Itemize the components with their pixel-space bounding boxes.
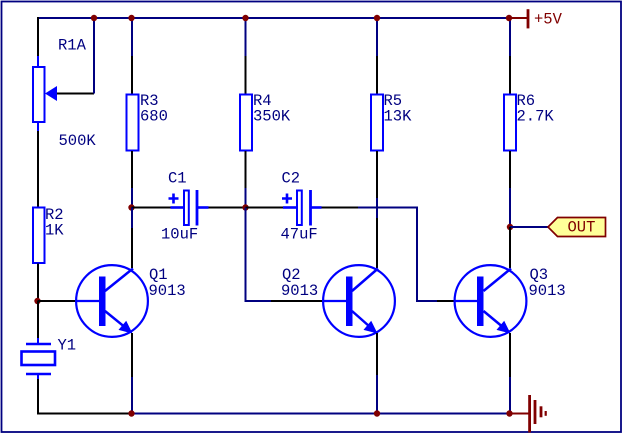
resistor R4 body [240, 95, 252, 151]
wire rail to R3 upper (navy) [131, 18, 133, 56]
wire ground rail navy [132, 413, 510, 415]
wire Q3 emitter black [509, 333, 511, 377]
transistor Q1 emitter line [105, 311, 129, 331]
svg-text:Y1: Y1 [58, 337, 77, 355]
svg-text:9013: 9013 [149, 282, 186, 300]
transistor Q3 circle [455, 265, 527, 337]
potentiometer R1A bottom pin [37, 123, 39, 132]
capacitor C2 right plate [309, 190, 312, 226]
wire node B down to Q2 base [246, 208, 272, 302]
resistor R3 body [127, 95, 139, 151]
wire R5 to Q2 collector upper [376, 151, 378, 198]
wire R4 bottom navy [245, 188, 247, 208]
transistor Q2 base bar [346, 277, 353, 327]
node rail/R6/+5V junction [506, 15, 512, 21]
wire node B to C2 [246, 207, 284, 209]
node rail/R3 junction [128, 15, 134, 21]
svg-text:9013: 9013 [529, 282, 566, 300]
wire R5 to Q2 collector lower [376, 218, 378, 268]
wire base node to crystal [37, 301, 39, 338]
crystal Y1 bottom stub [37, 374, 39, 379]
capacitor C1 right lead [197, 206, 209, 209]
transistor Q3 base bar [477, 277, 484, 327]
wire wiper horizontal [57, 93, 94, 95]
transistor Q2 collector line [352, 269, 378, 292]
svg-text:500K: 500K [59, 132, 97, 150]
capacitor C1 left lead [171, 206, 184, 209]
wire rail to R6 lower (black) [509, 56, 511, 94]
transistor Q1 circle [76, 265, 148, 337]
transistor Q3 base pin [454, 300, 477, 302]
crystal Y1 body [22, 352, 56, 366]
svg-text:680: 680 [140, 108, 168, 126]
wire to ground symbol [510, 413, 530, 415]
transistor Q1 base bar [99, 277, 106, 327]
wire top rail (+5V net) [37, 17, 509, 19]
svg-text:9013: 9013 [281, 282, 318, 300]
wire Q3 emitter navy [509, 377, 511, 414]
wire Q1 collector navy [131, 208, 133, 229]
wire R1A to R2 [37, 131, 39, 207]
wire R4 bottom black [245, 151, 247, 188]
svg-text:47uF: 47uF [281, 226, 318, 244]
wire Q2 emitter navy [376, 375, 378, 414]
potentiometer R1A body [33, 67, 45, 122]
crystal Y1 top plate [26, 343, 51, 346]
power symbol +5V bar [527, 9, 530, 28]
wire R3 bottom navy [131, 188, 133, 208]
transistor Q3 emitter line [484, 311, 508, 331]
wire R6 bottom navy [509, 188, 511, 227]
svg-text:1K: 1K [45, 222, 64, 240]
transistor Q3 [454, 265, 526, 337]
transistor Q1 [76, 265, 148, 337]
transistor Q3 collector line [484, 269, 512, 292]
transistor Q1 base pin [76, 300, 99, 302]
wire R3 bottom black [131, 151, 133, 188]
wire OUT node to flag [510, 226, 548, 228]
node ground rail Q3 junction [506, 410, 512, 416]
transistor Q2 emitter line [352, 311, 374, 331]
wire C1 to node B [209, 207, 246, 209]
wire OUT node to Q3 collector [509, 227, 511, 268]
transistor Q1 emitter arrow [119, 321, 133, 334]
node B junction [242, 204, 248, 210]
wire C2 to Q3 base corner [358, 208, 437, 302]
capacitor C2 left plate [297, 191, 302, 226]
port flag OUT [548, 218, 606, 237]
transistor Q2 emitter arrow [364, 321, 378, 334]
capacitor C1 left plate [184, 191, 189, 226]
transistor Q2 [323, 265, 395, 337]
wire rail to R4 upper (navy) [245, 18, 247, 56]
wire wiper vertical to +5V rail [93, 18, 95, 94]
wire rail to R5 lower (black) [376, 56, 378, 94]
wire R5 crossing segment [376, 198, 378, 218]
node C1 left junction [128, 204, 134, 210]
capacitor C1 right plate [196, 190, 199, 226]
wire Q1 base lead [38, 300, 77, 302]
wire R6 bottom black [509, 151, 511, 188]
transistor Q3 emitter arrow [497, 321, 511, 334]
svg-text:C2: C2 [282, 170, 301, 188]
node rail/R4 junction [242, 15, 248, 21]
node rail/R5 junction [374, 15, 380, 21]
svg-text:10uF: 10uF [161, 226, 198, 244]
transistor Q1 collector line [105, 269, 133, 292]
capacitor C2 plus sign [282, 194, 292, 204]
wire Q2 base lead [271, 300, 323, 302]
potentiometer R1A wiper arrow [45, 86, 57, 101]
capacitor C1 plus sign [169, 194, 179, 204]
node OUT junction [507, 224, 513, 230]
wire rail to R6 upper (navy) [509, 18, 511, 56]
wire rail to R3 lower (black) [131, 56, 133, 94]
wire Q1 collector black [131, 228, 133, 268]
wire Q2 emitter black [376, 333, 378, 375]
crystal Y1 top stub [37, 338, 39, 344]
crystal Y1 bottom plate [26, 373, 51, 376]
wire +5V stub [509, 17, 527, 19]
wire crystal to ground rail [38, 379, 132, 414]
wire left drop to R1A [37, 17, 39, 56]
capacitor C2 right lead [311, 206, 322, 209]
wire Q1 emitter navy [131, 377, 133, 414]
node ground rail Q2 junction [374, 410, 380, 416]
wire node to C1 [132, 207, 171, 209]
transistor Q2 base pin [323, 300, 346, 302]
svg-text:2.7K: 2.7K [517, 108, 555, 126]
transistor Q2 circle [323, 265, 395, 337]
resistor R6 body [504, 95, 516, 151]
svg-text:R1A: R1A [58, 37, 87, 55]
wire rail to R5 upper (navy) [376, 18, 378, 56]
svg-text:C1: C1 [168, 170, 187, 188]
wire rail to R4 lower (black) [245, 56, 247, 94]
wire C2 right black [322, 207, 359, 209]
wire R2 to base node [37, 264, 39, 302]
svg-text:+5V: +5V [534, 11, 563, 29]
node ground rail Q1 junction [128, 410, 134, 416]
svg-text:OUT: OUT [568, 219, 596, 237]
node Q1 base junction [34, 298, 40, 304]
capacitor C2 left lead [283, 206, 296, 209]
wire Q3 base lead [437, 300, 454, 302]
node rail/R1A wiper junction [91, 15, 97, 21]
svg-text:350K: 350K [253, 108, 291, 126]
ground symbol [528, 395, 547, 433]
resistor R5 body [371, 95, 383, 151]
wire Q1 emitter black [131, 333, 133, 377]
potentiometer R1A top pin [37, 56, 39, 67]
svg-text:13K: 13K [384, 108, 413, 126]
resistor R2 body [33, 208, 45, 264]
